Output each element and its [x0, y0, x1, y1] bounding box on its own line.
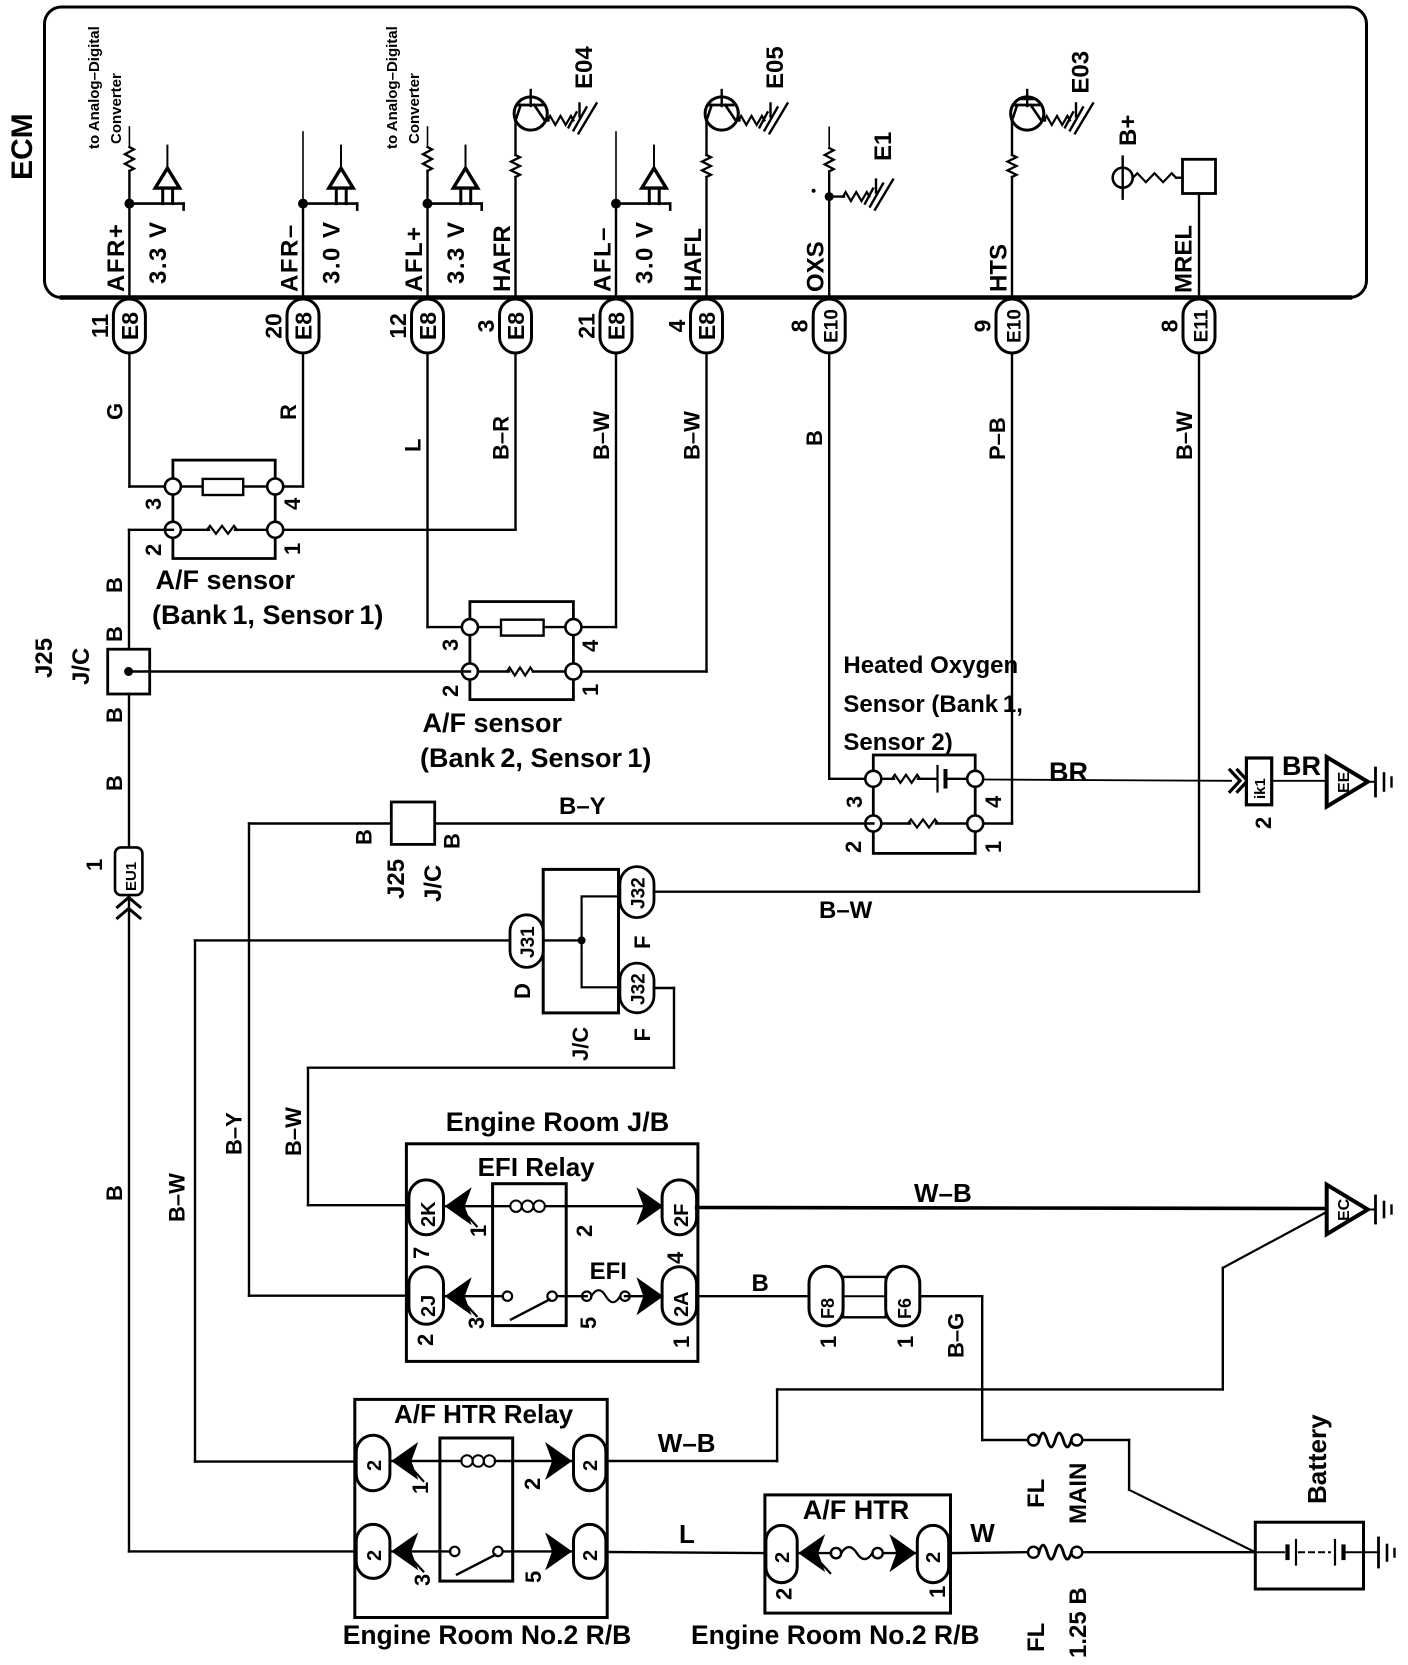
- fusible link FL 1.25 B: [1028, 1547, 1039, 1558]
- connector E8 pin 3: [500, 299, 532, 353]
- svg-text:Sensor 2): Sensor 2): [843, 729, 952, 756]
- svg-text:1: 1: [578, 684, 603, 696]
- svg-text:E8: E8: [604, 312, 630, 340]
- fuse F6 pin 1: [886, 1266, 920, 1326]
- heater fuse: [797, 1552, 831, 1554]
- svg-text:B–W: B–W: [589, 411, 614, 460]
- fuse element: [843, 1277, 886, 1317]
- terminal 3: [165, 479, 181, 495]
- wire B : J/C down to EU1: [128, 694, 130, 847]
- wire B-G : F6 down to FL MAIN: [920, 1295, 982, 1297]
- transistor driver HAFR: [530, 90, 532, 106]
- svg-text:4: 4: [578, 639, 603, 652]
- node dot AFL&#8211;: [611, 199, 621, 209]
- svg-text:E1: E1: [870, 132, 897, 161]
- AFL- input pull-up wire: [615, 132, 617, 204]
- svg-text:Battery: Battery: [1302, 1414, 1332, 1504]
- svg-text:MREL: MREL: [1171, 225, 1198, 293]
- node dot OXS: [825, 192, 834, 201]
- svg-text:B: B: [752, 1270, 769, 1297]
- wire B-Y : to EFI relay 2J: [249, 822, 391, 824]
- svg-text:Converter: Converter: [108, 73, 125, 144]
- J25 J/C junction box no2: [391, 802, 434, 844]
- terminal 1: [565, 664, 581, 680]
- ground triangle EE: [1327, 757, 1368, 807]
- resistor to E1: [829, 195, 844, 197]
- svg-text:J31: J31: [518, 926, 539, 958]
- svg-text:E10: E10: [822, 309, 843, 343]
- terminal 1: [267, 522, 283, 538]
- comparator symbol AFR+: [129, 202, 183, 205]
- svg-text:L: L: [679, 1519, 695, 1549]
- sensing cell resistor row: [181, 529, 209, 531]
- svg-text:20: 20: [261, 313, 287, 339]
- svg-text:2: 2: [413, 1334, 438, 1346]
- svg-text:F: F: [630, 1028, 655, 1041]
- svg-text:EU1: EU1: [123, 862, 140, 891]
- svg-text:AFR–: AFR–: [277, 223, 304, 292]
- svg-text:B: B: [802, 430, 827, 446]
- wire L : pin12 to sensor2 terminal 3: [426, 353, 428, 627]
- svg-text:4: 4: [663, 1251, 688, 1264]
- wire : J31 line: [195, 939, 582, 941]
- relay coil: [493, 1205, 510, 1207]
- arrow: [391, 1442, 418, 1480]
- svg-text:EC: EC: [1336, 1198, 1353, 1221]
- connector E10 pin 8: [813, 299, 845, 353]
- connector 2F pin 4: [662, 1180, 697, 1235]
- wire : FL MAIN to battery: [1082, 1439, 1129, 1441]
- terminal 3: [462, 619, 478, 635]
- svg-text:B–Y: B–Y: [222, 1112, 247, 1155]
- svg-text:W–B: W–B: [658, 1428, 716, 1458]
- wire B-W : J32 bottom to EFI relay 2K: [654, 987, 674, 989]
- svg-text:F6: F6: [895, 1298, 915, 1319]
- svg-text:R: R: [276, 404, 301, 420]
- wire G : pin11 to sensor1 terminal 3: [128, 353, 130, 487]
- wire B-Y : HOS terminal2 to J25 J/C no2: [435, 822, 874, 825]
- svg-text:Converter: Converter: [406, 73, 423, 144]
- svg-text:B–W: B–W: [281, 1107, 306, 1156]
- wire W-B : 2F to EC ground: [697, 1208, 1326, 1209]
- ground E05: [760, 103, 788, 133]
- svg-text:3: 3: [842, 796, 867, 808]
- svg-text:to Analog–Digital: to Analog–Digital: [384, 26, 401, 149]
- AFR- input pull-up wire: [302, 132, 304, 204]
- connector J31 pin D: [510, 915, 543, 968]
- svg-text:E11: E11: [1192, 309, 1213, 342]
- connector E10 pin 9: [996, 299, 1028, 353]
- connector 2J pin 2: [409, 1267, 444, 1325]
- wire R : pin20 to sensor1 terminal 4: [302, 353, 304, 487]
- svg-text:2: 2: [520, 1478, 545, 1490]
- svg-text:E8: E8: [291, 312, 317, 340]
- svg-text:F: F: [630, 936, 655, 949]
- svg-text:E8: E8: [694, 312, 720, 340]
- arrow: [889, 1534, 916, 1572]
- svg-text:21: 21: [574, 313, 600, 339]
- svg-text:2F: 2F: [671, 1204, 693, 1227]
- connector E8 pin 20: [287, 299, 319, 353]
- sensing cell resistor row: [478, 670, 509, 672]
- svg-text:B: B: [102, 626, 127, 642]
- connector E11 pin 8: [1183, 299, 1215, 353]
- svg-text:B: B: [440, 833, 465, 849]
- junction dot: [578, 936, 586, 944]
- connector E8 pin 12: [412, 299, 444, 353]
- wire L : relay to A/F HTR: [606, 1552, 766, 1553]
- connector 2 (switch out): [574, 1524, 606, 1578]
- connector E8 pin 11: [113, 299, 145, 353]
- MREL driver box: [1183, 159, 1216, 193]
- svg-text:B–W: B–W: [819, 897, 873, 924]
- svg-text:L: L: [401, 439, 426, 452]
- wire B-W : pin8 E11 to J32: [1198, 353, 1200, 892]
- svg-text:1: 1: [816, 1336, 841, 1348]
- svg-text:A/F sensor: A/F sensor: [423, 708, 563, 738]
- svg-text:AFL–: AFL–: [590, 226, 617, 292]
- svg-text:B+: B+: [1115, 115, 1142, 146]
- svg-text:B–W: B–W: [680, 411, 705, 460]
- connector ik1: [1246, 758, 1271, 805]
- relay switch: [450, 1547, 459, 1556]
- wire B : 2A to F8: [697, 1295, 809, 1297]
- svg-text:1: 1: [925, 1586, 950, 1598]
- svg-text:FL: FL: [1023, 1623, 1050, 1652]
- svg-text:9: 9: [970, 320, 996, 333]
- svg-text:J/C: J/C: [68, 648, 95, 685]
- wire HAFR: [514, 121, 516, 156]
- svg-text:2: 2: [141, 544, 166, 556]
- coil row wire: [390, 1460, 440, 1462]
- wire W-B : A/F HTR relay to EC ground: [606, 1460, 777, 1462]
- connector E8 pin 21: [600, 299, 632, 353]
- junction dot: [124, 667, 133, 676]
- battery cells: [1255, 1551, 1284, 1553]
- svg-text:HAFL: HAFL: [680, 228, 707, 292]
- node dot AFR&#8211;: [298, 199, 308, 209]
- svg-text:P–B: P–B: [985, 417, 1010, 460]
- svg-text:3.3 V: 3.3 V: [145, 220, 172, 284]
- node dot AFR+: [124, 199, 134, 209]
- svg-text:2J: 2J: [418, 1295, 440, 1317]
- transistor driver HAFL: [721, 90, 723, 106]
- svg-text:HTS: HTS: [986, 244, 1013, 292]
- svg-text:1: 1: [669, 1336, 694, 1348]
- transistor driver HTS: [1026, 90, 1028, 106]
- svg-text:4: 4: [664, 319, 690, 332]
- terminal 2: [462, 664, 478, 680]
- svg-text:11: 11: [87, 314, 113, 339]
- svg-text:2: 2: [772, 1588, 797, 1600]
- svg-text:2: 2: [580, 1460, 602, 1471]
- connector 2A pin 1: [662, 1267, 697, 1325]
- connector 2 (coil out): [574, 1435, 606, 1490]
- svg-text:Sensor (Bank 1,: Sensor (Bank 1,: [843, 691, 1023, 718]
- svg-text:E05: E05: [762, 46, 789, 89]
- svg-text:3: 3: [464, 1317, 489, 1329]
- battery ground: [1364, 1551, 1379, 1553]
- svg-text:B: B: [102, 1185, 127, 1201]
- AFL+ input pull-up wire: [427, 127, 429, 147]
- resistor to E05: [736, 119, 740, 121]
- svg-text:J25: J25: [383, 859, 410, 899]
- svg-text:B: B: [352, 829, 377, 845]
- svg-text:W–B: W–B: [914, 1178, 972, 1208]
- connector J32 pin F (top): [620, 867, 654, 918]
- svg-text:5: 5: [521, 1571, 546, 1583]
- svg-text:MAIN: MAIN: [1065, 1463, 1092, 1524]
- svg-text:2: 2: [364, 1460, 386, 1471]
- svg-text:W: W: [970, 1518, 995, 1548]
- svg-text:E04: E04: [571, 46, 598, 89]
- svg-text:8: 8: [1157, 319, 1183, 332]
- svg-text:2: 2: [580, 1550, 602, 1561]
- wire B-W : J31 to A/F HTR relay coil: [194, 940, 196, 1461]
- svg-text:B–G: B–G: [944, 1313, 969, 1358]
- svg-text:E8: E8: [117, 312, 143, 340]
- wire B-W : J32 top to MREL pin: [654, 891, 1199, 893]
- ground E1: [865, 180, 893, 210]
- svg-text:D: D: [510, 983, 535, 999]
- lower resistor row: [881, 822, 910, 824]
- arrow: [798, 1534, 825, 1572]
- svg-text:E8: E8: [415, 312, 441, 340]
- svg-text:3: 3: [141, 498, 166, 510]
- svg-text:B–Y: B–Y: [559, 793, 606, 820]
- wire B : EU1 down to A/F HTR relay: [128, 895, 130, 1551]
- terminal 3: [865, 771, 881, 787]
- svg-text:FL: FL: [1023, 1479, 1050, 1508]
- arrow: [636, 1187, 663, 1225]
- resistor to E03: [1041, 119, 1045, 121]
- wire B-W : pin4 to sensor2 terminal 1: [705, 353, 707, 672]
- svg-text:B: B: [102, 577, 127, 593]
- A/F HTR Relay box: [355, 1399, 607, 1617]
- svg-text:EFI: EFI: [590, 1258, 627, 1285]
- svg-text:2K: 2K: [418, 1201, 440, 1227]
- svg-text:7: 7: [409, 1247, 434, 1259]
- svg-text:3: 3: [473, 320, 499, 333]
- svg-text:(Bank 1, Sensor 1): (Bank 1, Sensor 1): [152, 600, 383, 630]
- svg-text:BR: BR: [1282, 751, 1321, 781]
- ECM box: [45, 7, 1367, 298]
- A/F sensor (Bank 1, Sensor 1) box: [173, 460, 275, 558]
- svg-text:ECM: ECM: [6, 113, 39, 180]
- Engine Room J/B box: [406, 1144, 698, 1362]
- terminal 2: [865, 816, 881, 832]
- svg-text:J/C: J/C: [420, 865, 447, 902]
- ground triangle EC: [1327, 1185, 1368, 1235]
- wire MREL: [1198, 194, 1200, 300]
- svg-text:1: 1: [408, 1482, 433, 1494]
- connector EU1 pin 1: [115, 847, 142, 895]
- arrow: [445, 1277, 472, 1315]
- connector J32 pin F (bottom): [620, 963, 654, 1013]
- AFR+ input pull-up wire: [128, 127, 130, 147]
- OXS pull-up wire: [828, 127, 830, 148]
- Battery box: [1255, 1522, 1363, 1589]
- wire BR : HOS terminal4 to IK1: [983, 780, 1231, 781]
- heater resistor + cell row: [881, 778, 894, 780]
- svg-text:EE: EE: [1336, 771, 1353, 793]
- arrow: [445, 1187, 472, 1225]
- svg-text:F8: F8: [818, 1298, 838, 1319]
- terminal 2: [165, 522, 181, 538]
- svg-text:E10: E10: [1005, 309, 1026, 343]
- svg-text:2: 2: [438, 685, 463, 697]
- svg-text:3.0 V: 3.0 V: [319, 220, 346, 284]
- wire BR: [1272, 780, 1326, 782]
- svg-text:1: 1: [466, 1225, 491, 1237]
- connector 2 (coil in): [356, 1435, 390, 1490]
- relay switch: [503, 1292, 512, 1301]
- ground E03: [1065, 103, 1093, 133]
- connector 2K pin 7: [409, 1180, 444, 1235]
- arrow: [545, 1532, 572, 1570]
- wire P-B : pin9 E10 to HOS terminal 1: [1011, 353, 1013, 824]
- svg-text:(Bank 2, Sensor 1): (Bank 2, Sensor 1): [420, 743, 651, 773]
- relay inner box: [440, 1438, 513, 1581]
- svg-text:2: 2: [1251, 817, 1276, 829]
- EU1 chevrons: [118, 898, 141, 919]
- relay coil: [440, 1460, 462, 1462]
- svg-text:1: 1: [280, 543, 305, 555]
- svg-text:2: 2: [364, 1550, 386, 1561]
- switch row wire: [390, 1550, 450, 1552]
- svg-text:B: B: [102, 775, 127, 791]
- svg-text:EFI Relay: EFI Relay: [478, 1152, 596, 1182]
- svg-text:5: 5: [576, 1317, 601, 1329]
- wire to battery: [1082, 1551, 1255, 1553]
- svg-text:2A: 2A: [671, 1291, 693, 1317]
- svg-text:AFR+: AFR+: [103, 223, 130, 292]
- svg-text:A/F sensor: A/F sensor: [156, 565, 296, 595]
- terminal 1: [967, 816, 983, 832]
- ground symbol: [1368, 781, 1376, 783]
- svg-text:3.0 V: 3.0 V: [632, 220, 659, 284]
- svg-text:ik1: ik1: [1252, 778, 1269, 799]
- svg-text:J32: J32: [629, 877, 650, 909]
- svg-text:1: 1: [981, 841, 1006, 853]
- heater element row: [478, 626, 565, 628]
- svg-text:AFL+: AFL+: [401, 225, 428, 292]
- svg-text:Heated Oxygen: Heated Oxygen: [843, 652, 1018, 679]
- svg-text:OXS: OXS: [803, 241, 830, 292]
- svg-text:B–W: B–W: [165, 1173, 190, 1222]
- connector 2 (switch in): [356, 1524, 390, 1578]
- svg-text:2: 2: [572, 1225, 597, 1237]
- ground E04: [569, 103, 597, 133]
- relay inner box: [493, 1184, 567, 1326]
- svg-text:B–W: B–W: [1172, 411, 1197, 460]
- fuse F8 pin 1: [809, 1266, 843, 1326]
- arrow: [545, 1442, 572, 1480]
- svg-text:1: 1: [893, 1336, 918, 1348]
- coil row wire: [444, 1205, 493, 1207]
- svg-text:1: 1: [82, 859, 107, 871]
- Heated Oxygen Sensor box: [873, 755, 975, 853]
- svg-text:1.25 B: 1.25 B: [1065, 1587, 1092, 1658]
- A/F sensor (Bank 2, Sensor 1) box: [470, 602, 574, 700]
- terminal 4: [267, 479, 283, 495]
- wire B : J25 J/C bus to sensor2 terminal 2: [129, 670, 470, 673]
- connector 2 pin 2: [766, 1525, 797, 1582]
- svg-text:J25: J25: [31, 638, 58, 678]
- arrow: [391, 1532, 418, 1570]
- fusible link FL MAIN: [1028, 1435, 1039, 1446]
- svg-text:A/F HTR Relay: A/F HTR Relay: [394, 1399, 574, 1429]
- inner bus rect: [582, 896, 619, 987]
- svg-text:4: 4: [280, 497, 305, 510]
- svg-text:E03: E03: [1068, 51, 1095, 94]
- svg-text:B: B: [102, 707, 127, 723]
- arrow: [636, 1277, 663, 1315]
- wire B-W : pin21 to sensor2 terminal 4: [615, 353, 617, 627]
- heater element row: [181, 485, 267, 487]
- fuse EFI: [582, 1292, 591, 1301]
- svg-text:HAFR: HAFR: [489, 225, 516, 292]
- wire HTS: [1011, 121, 1013, 156]
- svg-text:to Analog–Digital: to Analog–Digital: [86, 26, 103, 149]
- terminal 4: [565, 619, 581, 635]
- J/C block box: [543, 869, 618, 1013]
- svg-text:J32: J32: [629, 973, 650, 1005]
- wire B : pin8 E10 to HOS terminal 3: [828, 353, 830, 779]
- node dot AFL+: [423, 199, 433, 209]
- svg-text:2: 2: [923, 1552, 945, 1563]
- svg-text:E8: E8: [503, 312, 529, 340]
- svg-text:A/F HTR: A/F HTR: [803, 1495, 909, 1525]
- connector E8 pin 4: [691, 299, 723, 353]
- svg-text:12: 12: [385, 313, 411, 339]
- J25 J/C junction box: [108, 649, 150, 694]
- switch row wire: [444, 1295, 503, 1297]
- comparator symbol AFL+: [428, 202, 482, 205]
- svg-text:4: 4: [981, 795, 1006, 808]
- svg-text:Engine Room No.2 R/B: Engine Room No.2 R/B: [343, 1620, 632, 1650]
- svg-text:J/C: J/C: [568, 1027, 593, 1061]
- svg-text:G: G: [102, 403, 127, 420]
- svg-text:BR: BR: [1049, 757, 1088, 787]
- svg-text:2: 2: [841, 841, 866, 853]
- svg-text:Engine Room No.2 R/B: Engine Room No.2 R/B: [691, 1620, 980, 1650]
- comparator symbol AFL&#8211;: [616, 202, 670, 205]
- ground symbol: [1368, 1209, 1376, 1211]
- connector 2 pin 1: [917, 1525, 948, 1582]
- svg-text:B–R: B–R: [489, 416, 514, 460]
- comparator symbol AFR&#8211;: [303, 202, 357, 205]
- B+ symbol: [1121, 157, 1123, 199]
- IK1 chevrons: [1230, 770, 1248, 792]
- svg-text:8: 8: [787, 319, 813, 332]
- resistor B+ to MREL driver: [1133, 173, 1176, 182]
- wire B-R : pin3 to sensor1 terminal 1: [514, 353, 516, 530]
- wire B : sensor1 terminal2 down to J25 J/C: [129, 529, 173, 531]
- svg-text:3: 3: [410, 1574, 435, 1586]
- resistor to E04: [545, 119, 549, 121]
- svg-text:2: 2: [772, 1552, 794, 1563]
- terminal 4: [967, 771, 983, 787]
- A/F HTR box: [765, 1495, 951, 1613]
- svg-text:Engine Room J/B: Engine Room J/B: [446, 1107, 670, 1137]
- wire W : A/F HTR to FL 1.25B: [949, 1551, 1028, 1554]
- svg-text:3.3 V: 3.3 V: [443, 220, 470, 284]
- svg-text:3: 3: [438, 639, 463, 651]
- wire HAFL: [705, 121, 707, 156]
